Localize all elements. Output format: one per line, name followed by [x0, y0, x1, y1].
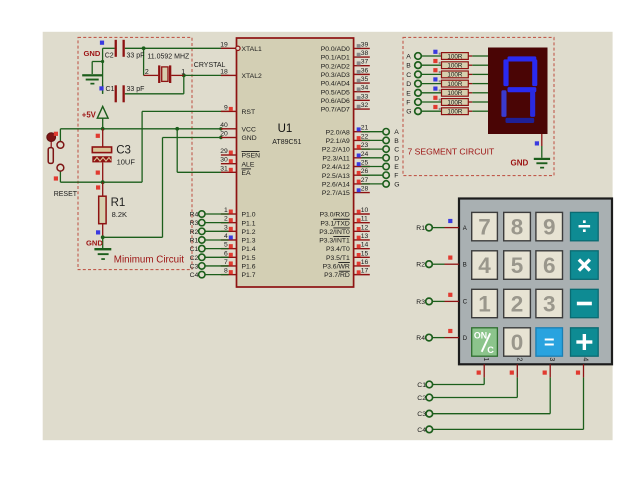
svg-text:18: 18 — [220, 68, 228, 75]
svg-text:38: 38 — [361, 50, 369, 57]
svg-text:17: 17 — [361, 268, 369, 275]
svg-text:D: D — [463, 336, 468, 342]
terminals P2 A-G — [383, 129, 389, 188]
svg-text:3: 3 — [543, 292, 556, 317]
svg-text:30: 30 — [220, 157, 228, 164]
svg-text:P1.1: P1.1 — [242, 220, 256, 227]
resistor R1 — [99, 182, 106, 237]
svg-text:XTAL2: XTAL2 — [242, 73, 262, 80]
svg-text:34: 34 — [361, 85, 369, 92]
svg-text:R3: R3 — [416, 299, 425, 306]
svg-text:B: B — [463, 262, 467, 268]
svg-text:3: 3 — [548, 357, 555, 361]
svg-text:7 SEGMENT CIRCUIT: 7 SEGMENT CIRCUIT — [408, 147, 495, 157]
svg-text:7: 7 — [478, 215, 491, 240]
svg-text:13: 13 — [361, 233, 369, 240]
7 segment display — [488, 48, 548, 135]
svg-text:4: 4 — [224, 233, 228, 240]
state squares 7seg resistors — [433, 50, 440, 110]
svg-text:P3.6/WR: P3.6/WR — [323, 264, 350, 271]
svg-text:1: 1 — [482, 357, 489, 361]
wire end dot VCC pin — [219, 127, 222, 130]
svg-text:A: A — [406, 54, 411, 61]
svg-text:7: 7 — [224, 259, 228, 266]
key ON/C — [472, 328, 498, 356]
segment d — [506, 118, 535, 123]
svg-text:35: 35 — [361, 76, 369, 83]
svg-text:R1: R1 — [416, 225, 425, 232]
svg-text:ALE: ALE — [242, 161, 255, 168]
svg-text:P1.3: P1.3 — [242, 238, 256, 245]
svg-text:26: 26 — [361, 168, 369, 175]
svg-text:=: = — [544, 333, 555, 353]
svg-text:GND: GND — [84, 49, 101, 58]
ground symbol reset — [94, 237, 111, 260]
svg-text:D: D — [406, 81, 411, 88]
svg-text:23: 23 — [361, 142, 369, 149]
junction reset node — [101, 180, 105, 184]
svg-text:P1.7: P1.7 — [242, 272, 256, 279]
svg-text:P2.2/A10: P2.2/A10 — [322, 147, 350, 154]
wire bottom reset row — [60, 181, 142, 183]
capacitor C1 — [115, 85, 125, 102]
svg-text:GND: GND — [86, 238, 103, 247]
schematic canvas background — [43, 32, 613, 440]
svg-text:P0.7/AD7: P0.7/AD7 — [321, 107, 350, 114]
svg-text:A: A — [394, 129, 399, 136]
svg-text:100R: 100R — [447, 90, 463, 97]
key digit 4 — [472, 251, 498, 279]
svg-text:28: 28 — [361, 186, 369, 193]
labels R1-R4 — [416, 225, 425, 342]
svg-text:39: 39 — [361, 41, 369, 48]
svg-text:P0.1/AD1: P0.1/AD1 — [321, 55, 350, 62]
chip U1 left pin names — [242, 46, 262, 279]
junction R1 gnd — [101, 235, 105, 239]
op-amp U1 body AT89C51 — [237, 38, 354, 287]
push button RESET — [47, 133, 64, 171]
wires P2 port to terminals — [362, 132, 383, 184]
svg-text:8: 8 — [224, 268, 228, 275]
svg-text:6: 6 — [224, 250, 228, 257]
key digit 5 — [504, 251, 531, 279]
svg-text:B: B — [394, 138, 399, 145]
svg-text:100R: 100R — [447, 109, 463, 116]
state square C3 bottom — [96, 171, 100, 175]
svg-text:P3.0/RXD: P3.0/RXD — [320, 212, 350, 219]
terminals R1-R4 — [426, 224, 433, 341]
svg-text:AT89C51: AT89C51 — [272, 139, 301, 146]
svg-text:C3: C3 — [116, 144, 131, 156]
svg-text:1: 1 — [224, 207, 228, 214]
svg-text:1: 1 — [478, 292, 491, 317]
blue state square above C2 — [100, 41, 104, 45]
svg-text:C3: C3 — [190, 263, 199, 270]
wire EA net — [177, 129, 228, 173]
svg-text:GND: GND — [242, 135, 257, 142]
svg-text:19: 19 — [220, 41, 228, 48]
svg-text:9: 9 — [543, 215, 556, 240]
key digit 9 — [536, 212, 563, 240]
svg-text:R1: R1 — [111, 197, 126, 209]
segment f — [503, 59, 508, 86]
state square R1 top — [96, 185, 100, 189]
svg-text:EA: EA — [242, 170, 252, 177]
svg-text:C2: C2 — [105, 52, 114, 59]
svg-text:C: C — [487, 345, 494, 355]
wires keypad columns C1-C4 — [433, 364, 584, 429]
state square display pin blue — [535, 141, 539, 145]
svg-text:P3.2/INT0: P3.2/INT0 — [319, 229, 350, 236]
key digit 1 — [472, 289, 498, 317]
segment b — [532, 59, 537, 86]
wire display cathode — [541, 134, 543, 158]
svg-text:11.0592 MHZ: 11.0592 MHZ — [147, 54, 190, 61]
wire XTAL2 net — [103, 75, 229, 93]
svg-text:P1.0: P1.0 — [242, 212, 256, 219]
key operator div — [571, 212, 599, 240]
key operator minus — [571, 289, 599, 317]
svg-text:10UF: 10UF — [117, 157, 136, 166]
svg-text:21: 21 — [361, 125, 369, 132]
svg-text:C1: C1 — [190, 246, 199, 253]
svg-text:6: 6 — [543, 253, 556, 278]
pin XTAL1 bubble — [236, 46, 240, 50]
svg-text:G: G — [394, 181, 399, 188]
svg-text:12: 12 — [361, 224, 369, 231]
svg-text:27: 27 — [361, 177, 369, 184]
svg-text:P0.6/AD6: P0.6/AD6 — [321, 98, 350, 105]
junction EA column — [175, 127, 179, 131]
svg-text:32: 32 — [361, 102, 369, 109]
svg-text:E: E — [406, 90, 411, 97]
junction gnd branch — [101, 60, 104, 63]
svg-text:C1: C1 — [417, 382, 426, 389]
junction crystal-XTAL1 — [142, 46, 146, 50]
svg-text:29: 29 — [220, 148, 228, 155]
svg-text:9: 9 — [224, 104, 228, 111]
dashed box Minimum Circuit — [78, 37, 192, 269]
svg-text:C: C — [394, 147, 399, 154]
svg-text:VCC: VCC — [242, 126, 256, 133]
svg-text:C4: C4 — [417, 427, 426, 434]
ground symbol crystal — [82, 74, 102, 84]
keypad column labels 1-4 — [482, 357, 588, 361]
capacitor C2 — [115, 40, 125, 57]
wire GND net to chip — [103, 138, 221, 238]
keypad row labels A-D — [463, 226, 468, 342]
svg-text:2: 2 — [224, 216, 228, 223]
svg-text:R4: R4 — [416, 335, 425, 342]
segment e — [501, 90, 506, 117]
svg-text:2: 2 — [511, 292, 524, 317]
labels R4 R3 R2 R1 C1 C2 C3 C4 — [190, 212, 199, 280]
wire button top — [59, 129, 61, 142]
labels C1-C4 — [417, 382, 426, 434]
svg-text:0: 0 — [511, 330, 524, 355]
state square C3 top — [96, 134, 100, 138]
segment g — [508, 87, 537, 92]
svg-text:P0.0/AD0: P0.0/AD0 — [321, 46, 350, 53]
svg-text:20: 20 — [220, 131, 228, 138]
svg-text:Minimum Circuit: Minimum Circuit — [114, 255, 184, 266]
svg-text:R4: R4 — [190, 212, 199, 219]
svg-text:G: G — [406, 109, 411, 116]
ground symbol 7seg — [534, 158, 550, 169]
svg-text:P3.3/INT1: P3.3/INT1 — [319, 238, 350, 245]
svg-text:R3: R3 — [190, 220, 199, 227]
svg-text:GND: GND — [511, 158, 529, 167]
terminals C1-C4 — [426, 381, 433, 433]
chip U1 left pin stubs — [221, 48, 237, 274]
svg-text:R1: R1 — [190, 237, 199, 244]
svg-text:D: D — [394, 155, 399, 162]
wire RST net — [142, 111, 228, 182]
svg-text:100R: 100R — [447, 53, 463, 60]
svg-text:2: 2 — [515, 357, 522, 361]
svg-text:÷: ÷ — [578, 213, 591, 239]
key digit 7 — [472, 212, 498, 240]
svg-text:P1.5: P1.5 — [242, 255, 256, 262]
svg-text:14: 14 — [361, 242, 369, 249]
svg-text:P0.3/AD3: P0.3/AD3 — [321, 72, 350, 79]
svg-text:15: 15 — [361, 250, 369, 257]
svg-text:R2: R2 — [416, 262, 425, 269]
svg-text:C1: C1 — [106, 86, 115, 93]
svg-text:U1: U1 — [278, 123, 293, 135]
svg-text:8: 8 — [511, 215, 524, 240]
wire VCC row — [60, 128, 221, 130]
svg-text:100R: 100R — [447, 99, 463, 106]
junction crystal-XTAL2 — [182, 74, 186, 78]
svg-text:P2.3/A11: P2.3/A11 — [322, 155, 350, 162]
svg-text:22: 22 — [361, 133, 369, 140]
svg-text:40: 40 — [220, 122, 228, 129]
svg-text:P2.0/A8: P2.0/A8 — [326, 129, 350, 136]
values 100R — [447, 53, 463, 115]
state square button bottom — [54, 176, 58, 180]
chip U1 left pin state squares — [229, 107, 233, 274]
svg-text:C2: C2 — [190, 255, 199, 262]
svg-text:10: 10 — [361, 207, 369, 214]
key digit 0 — [504, 328, 531, 356]
svg-text:P2.6/A14: P2.6/A14 — [322, 182, 350, 189]
svg-text:8.2K: 8.2K — [112, 210, 127, 219]
state squares keypad rows — [448, 219, 452, 333]
svg-text:PSEN: PSEN — [242, 153, 261, 160]
state squares keypad columns — [477, 371, 581, 375]
svg-text:4: 4 — [478, 253, 491, 278]
svg-text:P2.7/A15: P2.7/A15 — [322, 190, 350, 197]
svg-text:5: 5 — [224, 242, 228, 249]
svg-text:P2.1/A9: P2.1/A9 — [326, 138, 350, 145]
svg-text:11: 11 — [361, 216, 368, 223]
chip U1 left pin numbers — [220, 41, 228, 274]
svg-text:P3.7/RD: P3.7/RD — [324, 272, 350, 279]
svg-text:100R: 100R — [447, 63, 463, 70]
svg-text:16: 16 — [361, 259, 369, 266]
svg-text:3: 3 — [224, 224, 228, 231]
svg-text:P3.4/T0: P3.4/T0 — [326, 246, 350, 253]
key digit 2 — [504, 289, 531, 317]
svg-text:P1.6: P1.6 — [242, 264, 256, 271]
resistors 100R bank — [442, 53, 469, 115]
svg-text:36: 36 — [361, 67, 369, 74]
key operator plus — [571, 328, 599, 356]
svg-text:C3: C3 — [417, 411, 426, 418]
svg-text:1: 1 — [181, 69, 185, 76]
svg-text:2: 2 — [145, 69, 149, 76]
svg-text:RESET: RESET — [54, 191, 78, 198]
svg-text:C: C — [463, 300, 468, 306]
wires keypad rows R1-R4 — [432, 228, 459, 338]
svg-text:ON: ON — [474, 330, 487, 340]
svg-text:P2.4/A12: P2.4/A12 — [322, 164, 350, 171]
svg-text:P0.2/AD2: P0.2/AD2 — [321, 63, 350, 70]
svg-text:C2: C2 — [417, 395, 426, 402]
svg-text:XTAL1: XTAL1 — [242, 46, 262, 53]
svg-text:P0.4/AD4: P0.4/AD4 — [321, 81, 350, 88]
svg-text:31: 31 — [220, 165, 228, 172]
labels node A-G at P2 — [394, 129, 399, 188]
segment c — [530, 90, 535, 117]
svg-text:P3.1/TXD: P3.1/TXD — [320, 220, 350, 227]
key = — [536, 328, 563, 356]
svg-text:5: 5 — [511, 253, 524, 278]
wire cap gnd vertical — [92, 48, 102, 94]
svg-text:F: F — [406, 100, 410, 107]
svg-text:B: B — [406, 63, 411, 70]
power +5V symbol — [97, 106, 108, 128]
state square button top — [54, 132, 58, 136]
svg-text:R2: R2 — [190, 229, 199, 236]
svg-text:37: 37 — [361, 59, 369, 66]
svg-text:P3.5/T1: P3.5/T1 — [326, 255, 350, 262]
segment a — [508, 56, 537, 61]
svg-text:P1.4: P1.4 — [242, 246, 256, 253]
svg-text:24: 24 — [361, 151, 369, 158]
svg-text:E: E — [394, 164, 399, 171]
svg-text:25: 25 — [361, 160, 369, 167]
capacitor C3 — [92, 129, 111, 182]
svg-text:C4: C4 — [190, 272, 199, 279]
key digit 3 — [536, 289, 563, 317]
key digit 8 — [504, 212, 531, 240]
svg-text:4: 4 — [582, 357, 589, 361]
labels node A-G 7seg — [406, 54, 411, 116]
crystal X1 — [144, 65, 184, 83]
svg-text:33 pF: 33 pF — [127, 52, 145, 59]
wire button bottom — [59, 171, 61, 182]
chip U1 right pin names — [319, 46, 350, 279]
terminals P1 R4-C4 — [199, 211, 205, 278]
svg-text:100R: 100R — [447, 81, 463, 88]
blue state square at C1 — [99, 86, 103, 90]
junction +5V-VCC — [101, 127, 105, 131]
svg-text:P1.2: P1.2 — [242, 229, 256, 236]
wires P1 port to terminals — [205, 214, 229, 275]
terminals 7seg A-G — [415, 53, 422, 115]
svg-text:P0.5/AD5: P0.5/AD5 — [321, 89, 350, 96]
wires 7seg terminals to resistors — [421, 56, 488, 111]
svg-text:+5V: +5V — [82, 110, 97, 119]
svg-text:100R: 100R — [447, 72, 463, 79]
key operator mul — [571, 251, 599, 279]
wire XTAL1 net — [103, 48, 229, 75]
svg-text:P2.5/A13: P2.5/A13 — [322, 173, 350, 180]
keypad body — [459, 199, 612, 365]
chip U1 right pin stubs — [354, 48, 370, 274]
dashed box 7 segment circuit — [403, 37, 554, 175]
chip U1 right pin numbers — [361, 41, 369, 274]
svg-text:C: C — [406, 72, 411, 79]
svg-text:RST: RST — [242, 109, 256, 116]
svg-text:F: F — [394, 173, 398, 180]
wire end dot GND pin — [219, 136, 222, 139]
chip U1 right pin state squares — [357, 44, 361, 274]
state square R1 bottom blue — [96, 230, 100, 234]
svg-text:33 pF: 33 pF — [127, 86, 145, 93]
key digit 6 — [536, 251, 563, 279]
svg-text:33: 33 — [361, 93, 369, 100]
svg-text:A: A — [463, 226, 467, 232]
